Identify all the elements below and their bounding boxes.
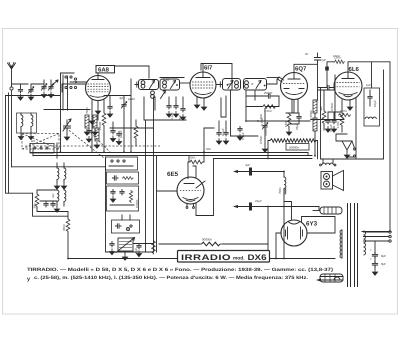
variable capacitor tuning gang section1 (63, 119, 71, 140)
IF transformer T1 box2 (160, 79, 180, 90)
wire R4 to bus (67, 232, 69, 258)
svg-text:45Kn: 45Kn (62, 224, 66, 231)
svg-text:8μF: 8μF (381, 254, 386, 258)
grid cap 6L6 (318, 85, 335, 90)
switch box row1 (106, 157, 138, 170)
wire 6A8 lead to bus (92, 113, 98, 153)
antenna (8, 63, 16, 91)
svg-text:4μF: 4μF (119, 96, 124, 100)
svg-text:17Kn: 17Kn (340, 109, 347, 113)
svg-text:4μF: 4μF (245, 163, 250, 167)
svg-text:4μF: 4μF (319, 106, 323, 111)
svg-text:2Kn: 2Kn (33, 203, 37, 209)
capacitor left of pot (109, 241, 114, 255)
wire 617 top loop (201, 64, 232, 91)
wire tone line (159, 243, 268, 245)
trimmer antenna (28, 87, 34, 101)
svg-text:0,1μF: 0,1μF (329, 124, 333, 132)
resistor 17K (338, 109, 351, 117)
switch box row4 (112, 215, 140, 233)
dashed gang coupling (25, 145, 160, 147)
resistor R3 2K (33, 193, 39, 209)
transformer core (348, 203, 358, 287)
svg-text:50000n: 50000n (289, 146, 299, 150)
svg-text:6A8: 6A8 (98, 67, 110, 74)
phone jack triangle (342, 141, 356, 158)
boxed label 50000 (286, 144, 309, 151)
wire 6Q7 plate up (294, 64, 318, 72)
wire y128 (110, 127, 154, 129)
capacitor 21uF filt (249, 199, 262, 211)
switch box row2 (107, 172, 139, 184)
capacitor antenna C1 (18, 87, 23, 100)
capacitor mid (86, 128, 91, 142)
capacitor 6Q7 cath (237, 126, 242, 140)
wire top right to 6L6 (362, 231, 390, 233)
label 617 (204, 65, 213, 72)
svg-text:6L6: 6L6 (349, 66, 360, 73)
bus y155.8 (33, 155, 312, 157)
svg-text:15Kn: 15Kn (334, 56, 341, 60)
output box (321, 70, 384, 159)
wire RF top link (44, 73, 86, 152)
svg-text:250pF: 250pF (264, 91, 273, 95)
tube V3 6Q7 (281, 72, 308, 99)
svg-text:+: + (370, 248, 372, 252)
svg-text:8μF: 8μF (381, 262, 386, 266)
label 6A8 (96, 66, 115, 74)
ground 617 cathode b (201, 98, 206, 110)
wire earth lead down (6, 96, 33, 194)
capacitor pair 6L6 b (328, 112, 342, 132)
capacitor pair 6A8 (107, 104, 112, 117)
svg-text:6Q7: 6Q7 (295, 66, 307, 73)
svg-text:4,5Kn: 4,5Kn (264, 128, 268, 136)
inner box (364, 88, 380, 126)
label 6L6 (349, 66, 360, 73)
IF T1 lower coils (151, 91, 166, 99)
svg-text:6I7: 6I7 (204, 65, 213, 72)
wire 6E5 top wires (188, 152, 204, 178)
svg-text:padd: padd (128, 97, 135, 101)
wire y167 bus (12, 166, 106, 168)
grid leak chain (259, 109, 268, 153)
svg-text:6Y3: 6Y3 (306, 221, 318, 228)
svg-text:osc: osc (51, 193, 55, 198)
svg-text:IRRADIO: IRRADIO (181, 253, 231, 262)
coil L1 antenna primary (17, 113, 37, 140)
svg-text:0,1Mn: 0,1Mn (260, 117, 264, 126)
capacitor 7uF top (315, 53, 327, 62)
wire x204 drop (204, 128, 214, 152)
wiper arrow (52, 80, 58, 85)
resistor right of 6Q7 (319, 90, 326, 130)
tube V5 6E5 (177, 177, 205, 204)
svg-text:170n: 170n (336, 121, 340, 128)
oscillator coil pair L2 (54, 163, 66, 189)
resistor R 0.1M boxed (309, 100, 317, 131)
ground R1 (84, 129, 89, 135)
wire antenna lead down (11, 90, 13, 167)
wire y119 link (311, 119, 344, 121)
svg-text:2n: 2n (305, 52, 309, 56)
wire y216 link (33, 193, 69, 216)
resistor extra mid (134, 120, 138, 146)
svg-text:0,1μF: 0,1μF (170, 112, 174, 120)
choke above speaker (320, 159, 336, 166)
switch box row3 (107, 186, 139, 211)
choke filter (278, 172, 286, 197)
wire 6Y3 plate top (284, 202, 292, 220)
coil inner (365, 117, 376, 119)
svg-text:10μF: 10μF (373, 100, 377, 107)
filter caps 8uF (370, 241, 386, 275)
grid cap 6Q7 (267, 77, 284, 82)
wire T2 to 6Q7 grid (267, 78, 280, 85)
capacitor pair 6L6 a (325, 112, 330, 132)
svg-text:0,35Mn: 0,35Mn (309, 110, 313, 120)
wire 6E5 left (157, 190, 178, 192)
svg-text:25μF: 25μF (295, 123, 299, 130)
tube V1 6A8 (86, 76, 111, 101)
capacitor 10uF (367, 90, 377, 107)
primary winding bottom (320, 274, 343, 282)
bus y152 (30, 153, 308, 156)
switch contact dot (127, 228, 130, 231)
secondary taps (364, 231, 392, 242)
svg-text:0,1μF: 0,1μF (241, 132, 245, 140)
label 6E5 (167, 171, 179, 178)
wire osc bottom (37, 208, 68, 219)
svg-text:mod.: mod. (233, 256, 244, 262)
tube V4 6L6 (334, 72, 362, 100)
svg-text:7μF: 7μF (321, 58, 326, 62)
HV winding left (340, 230, 342, 258)
resistor under 6A8 (98, 112, 106, 134)
tube V6 6Y3 (281, 220, 307, 246)
svg-text:0,5Mn: 0,5Mn (135, 199, 139, 208)
capacitor mid extra b (116, 131, 121, 145)
capacitor T2 input (218, 82, 228, 87)
wire pot to rail (133, 243, 154, 245)
svg-text:90000n: 90000n (202, 238, 212, 242)
wire T2 inner leads (231, 90, 256, 136)
wire 6Q7 cathode (286, 100, 294, 114)
svg-text:50n: 50n (206, 147, 211, 151)
band switch contacts (65, 76, 77, 89)
volume pot (116, 238, 135, 261)
ground 6L6 (347, 104, 352, 110)
resistor 45K h (246, 105, 276, 113)
wire 617 to T2 (216, 84, 223, 86)
dashed gang box (22, 134, 59, 150)
ground 6A8 cathode (95, 108, 100, 114)
resistor bottom small (152, 240, 156, 254)
wire IF1 to 617 grid (180, 82, 191, 84)
resistor 15K top (325, 56, 345, 88)
terminal dots 6E5 (186, 204, 194, 208)
trimmer RF section a (41, 84, 47, 98)
wire 6A8 top (98, 66, 184, 78)
wire drops to bus (104, 79, 131, 152)
wire HV link (318, 207, 320, 211)
wire 6Y3 left lead (276, 233, 281, 259)
wire primary left (313, 210, 320, 212)
wire 6A8 grid left (62, 84, 86, 92)
resistor boxed mid (94, 128, 99, 148)
svg-text:DX6: DX6 (248, 253, 268, 262)
label 6Y3 (306, 221, 318, 228)
svg-text:IF: IF (228, 82, 231, 86)
wire cluster tops (21, 84, 45, 87)
svg-text:c. (25-58), m. (525-1410 kHz),: c. (25-58), m. (525-1410 kHz), l. (135-3… (34, 275, 308, 280)
resistor R4 (62, 218, 70, 232)
resistor 170 (336, 112, 344, 132)
svg-text:25000: 25000 (98, 121, 102, 130)
IF transformer T1 box1 (139, 80, 159, 90)
wire x335 drop (318, 75, 336, 120)
ground 6A8 grid leak (89, 118, 94, 124)
capacitor osc C (37, 190, 57, 207)
capacitor 8uF bottom (134, 243, 142, 257)
dashed diagonal to switch (66, 128, 110, 158)
wire y120 (144, 97, 186, 120)
wire right rail x310 (317, 60, 319, 100)
svg-text:0,1μF: 0,1μF (119, 130, 123, 138)
capacitor 250pF (246, 91, 279, 107)
capacitor 0.1 c (180, 97, 185, 120)
resistor 50000 long (268, 139, 318, 159)
capacitor 4uF filt (245, 163, 252, 176)
svg-text:1μF: 1μF (366, 83, 371, 87)
IF transformer T2 box1 (223, 79, 241, 91)
wire top-left horizontals (6, 84, 61, 96)
wire 6Y3 right lead (302, 217, 336, 234)
speaker cone (333, 171, 344, 191)
resistor 5K above 6E5 (189, 156, 203, 164)
resistor R2 boxed (93, 115, 97, 128)
wire 617 screen leads (221, 96, 226, 117)
capacitor 0.1 a (166, 97, 171, 117)
wire x268 drop (267, 207, 269, 259)
wire field line2 (233, 205, 319, 208)
svg-text:700n: 700n (85, 107, 89, 114)
svg-text:700n: 700n (278, 187, 282, 194)
capacitor mid extra a (110, 122, 115, 142)
capacitor IF1 input (135, 82, 139, 87)
ground R2 (92, 129, 97, 135)
6L6 cathode leads (342, 98, 356, 159)
ground 617 cathode a (194, 97, 199, 108)
speaker magnet (321, 172, 333, 190)
oscillator coil pair L3 (54, 186, 66, 212)
svg-text:21μF: 21μF (255, 199, 262, 203)
capacitor right of 6Q7 (284, 100, 302, 136)
wire 6L6 plate top (348, 62, 390, 232)
primary winding top (320, 207, 342, 214)
tube V2 617 (190, 72, 216, 98)
wire 6E5 bottom loop (196, 159, 214, 216)
bus y158.8 (214, 158, 313, 160)
svg-text:0,5Mn: 0,5Mn (330, 102, 334, 111)
svg-text:150n: 150n (284, 120, 288, 127)
padder trimmer (121, 96, 135, 118)
svg-text:ant: ant (31, 139, 35, 143)
wire rail to bus (315, 100, 318, 156)
wire field line1 (233, 170, 284, 173)
switch box left (30, 143, 57, 158)
svg-text:0,1μF: 0,1μF (221, 128, 225, 136)
IF transformer T2 box2 (244, 79, 267, 91)
svg-text:TIRRADIO. — Modelli « D 58, D: TIRRADIO. — Modelli « D 58, D X 5, D X 6… (27, 267, 334, 272)
label 6Q7 (295, 66, 307, 73)
resistor 90000 tone (200, 238, 222, 246)
wire choke down (283, 196, 285, 259)
svg-text:0,5Mn: 0,5Mn (259, 135, 263, 144)
wire y109 (44, 109, 90, 111)
mains arrow (316, 277, 343, 282)
wire 6A8 leads (92, 100, 104, 118)
wire ground lead down (8, 93, 10, 193)
wire y136 (231, 135, 259, 137)
svg-text:5Kn: 5Kn (190, 156, 196, 160)
vertical rails cluster (106, 97, 157, 252)
svg-text:4μF: 4μF (178, 115, 182, 120)
wire jack feed (336, 134, 347, 141)
capacitor under T2 b (223, 121, 228, 144)
svg-text:IF: IF (251, 82, 254, 86)
trimmer RF section b (48, 84, 54, 98)
svg-text:50pF: 50pF (163, 78, 170, 82)
wire left bus ends (30, 144, 33, 156)
resistor R1 boxed (85, 115, 89, 128)
wire inner box top lead (371, 62, 373, 88)
capacitor 0.1 b (173, 97, 178, 117)
misc value labels (31, 78, 371, 208)
svg-text:6E5: 6E5 (167, 171, 179, 178)
bottom bus (68, 258, 335, 260)
capacitor under T2 (216, 121, 221, 144)
wire y121 (246, 107, 310, 121)
filament winding right (364, 231, 366, 255)
svg-text:+: + (370, 257, 372, 261)
